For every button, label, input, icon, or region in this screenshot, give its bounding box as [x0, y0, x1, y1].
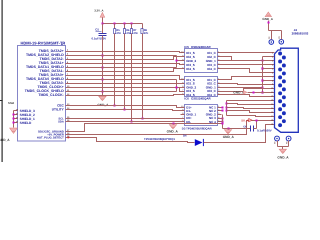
svg-text:6: 6 — [182, 67, 183, 70]
ground GND_A bottom left — [10, 128, 18, 133]
svg-text:2086581003: 2086581003 — [292, 32, 309, 36]
wire ctrl signal to D3 — [71, 118, 181, 120]
resistor R5 — [114, 24, 116, 29]
wire +5V_POWER to connector p18 — [71, 121, 275, 135]
svg-text:D3 TPD4E05U06DQAR: D3 TPD4E05U06DQAR — [182, 127, 212, 131]
svg-text:10: 10 — [181, 105, 183, 108]
svg-text:5V_A: 5V_A — [241, 118, 248, 122]
svg-text:10: 10 — [181, 78, 183, 81]
svg-text:UTILITY: UTILITY — [52, 108, 65, 112]
svg-text:9: 9 — [182, 55, 183, 58]
svg-text:7: 7 — [182, 116, 183, 119]
wire ctrl signal to D3 — [71, 121, 181, 123]
wire staircase branch — [227, 108, 275, 109]
svg-text:3: 3 — [218, 112, 219, 115]
wire shield row 2 — [71, 55, 177, 57]
wire gnd vertical — [222, 115, 224, 129]
wire p13 row — [227, 100, 275, 102]
wire TMDS row 10 to ESD — [71, 88, 181, 92]
connector bottom shield pins — [275, 136, 280, 141]
wire TMDS row 4 to ESD — [71, 64, 181, 65]
svg-text:C5: C5 — [95, 28, 99, 32]
ESD diode array D3 — [185, 105, 218, 126]
svg-text:TMDS_CLOCK-: TMDS_CLOCK- — [38, 93, 64, 97]
svg-text:6: 6 — [182, 119, 183, 122]
wire 3.3V stem — [102, 18, 104, 24]
wire shield row 8 — [71, 79, 177, 81]
wire shield vertical — [262, 57, 264, 93]
svg-text:HDMI-19-RVS/MSMT-TR: HDMI-19-RVS/MSMT-TR — [21, 40, 66, 45]
wire C5 ground / shield net vertical — [102, 36, 104, 97]
wire p17 branch — [227, 116, 275, 117]
svg-text:IO4_S: IO4_S — [186, 67, 195, 71]
power port GND_A top right — [265, 12, 271, 17]
resistor R7 — [131, 24, 133, 29]
ground GND_A under C5 — [99, 96, 106, 100]
wire ESD out to connector — [222, 57, 275, 61]
sheet border left edge — [2, 0, 3, 162]
svg-text:S3: S3 — [273, 142, 276, 144]
wire ESD out to connector — [222, 89, 275, 92]
ESD array IC6 block — [185, 77, 218, 97]
wire top shield rail — [269, 30, 282, 32]
HPD negative mark — [67, 137, 69, 139]
svg-text:1: 1 — [218, 105, 219, 108]
svg-text:5: 5 — [218, 67, 219, 70]
wire — [277, 141, 279, 147]
svg-text:8: 8 — [182, 112, 183, 115]
ESD array IC5 block — [185, 49, 218, 73]
svg-text:GND_A: GND_A — [277, 155, 289, 159]
wire shield row 5 — [71, 67, 177, 69]
wire shield tie verticals at ESD — [176, 56, 178, 68]
svg-text:IO4_C: IO4_C — [207, 67, 217, 71]
svg-text:5: 5 — [218, 119, 219, 122]
wire shield bus vertical — [13, 111, 15, 128]
wire TMDS row 7 to ESD — [71, 76, 181, 80]
wire DDC/CEC ground row — [71, 124, 223, 132]
wire shield pin stub — [263, 56, 275, 58]
svg-text:9: 9 — [182, 81, 183, 84]
wire ESD out to connector — [222, 64, 275, 66]
wire staircase branch — [227, 111, 275, 113]
svg-text:7: 7 — [182, 63, 183, 66]
capacitor C6 — [223, 128, 251, 130]
wire HPD row — [71, 138, 195, 143]
wire shield pin stub — [263, 92, 275, 94]
wire TMDS row 1 to ESD — [71, 52, 181, 53]
svg-text:ESD224DQAR: ESD224DQAR — [191, 96, 211, 100]
svg-text:Shld: Shld — [8, 101, 14, 105]
wire shield pin stub — [263, 80, 275, 82]
svg-text:0.1uF/100V: 0.1uF/100V — [257, 128, 272, 132]
svg-text:3.3V_A: 3.3V_A — [94, 9, 103, 13]
ground GND_A bottom right — [279, 149, 286, 153]
svg-text:GND_A: GND_A — [167, 130, 179, 134]
svg-text:3: 3 — [218, 59, 219, 62]
wire TMDS row 9 to ESD — [71, 83, 181, 85]
wire ESD out to connector — [222, 52, 275, 54]
svg-text:S1: S1 — [268, 37, 271, 39]
svg-text:3: 3 — [218, 85, 219, 88]
svg-text:1: 1 — [218, 51, 219, 54]
connector pins 1-19 — [278, 52, 282, 56]
wire — [288, 141, 290, 147]
svg-text:D4: D4 — [183, 135, 187, 138]
svg-text:7: 7 — [182, 89, 183, 92]
svg-text:8: 8 — [182, 85, 183, 88]
wire TMDS row 6 to ESD — [71, 69, 181, 72]
ground GND_A middle — [173, 123, 175, 125]
svg-text:10: 10 — [181, 51, 183, 54]
wire ctrl signal to D3 — [71, 110, 181, 111]
svg-text:IC6: IC6 — [184, 96, 189, 100]
wire ESD out to connector — [222, 77, 275, 80]
svg-text:0.1uF/100V: 0.1uF/100V — [92, 36, 107, 40]
connector J4 body — [275, 48, 299, 132]
svg-text:2: 2 — [218, 55, 219, 58]
svg-text:GND_A: GND_A — [262, 17, 273, 21]
wire staircase branch — [227, 104, 275, 105]
svg-text:SHIELD: SHIELD — [20, 121, 32, 125]
wire 3.3V bus — [103, 23, 143, 25]
svg-text:HOT_PLUG_DETECT: HOT_PLUG_DETECT — [37, 137, 64, 140]
svg-text:5: 5 — [218, 92, 219, 95]
svg-text:47K: 47K — [133, 32, 138, 35]
wire ESD gnd to shield vertical — [222, 60, 263, 62]
wire HPD to connector p19 — [204, 125, 275, 143]
wire shield pin stub — [263, 68, 275, 70]
wire ESD out to connector — [222, 69, 275, 73]
svg-text:TPD1E05U06QDPYRQ1: TPD1E05U06QDPYRQ1 — [144, 137, 175, 141]
svg-text:C6: C6 — [243, 125, 247, 128]
svg-text:SDA: SDA — [58, 121, 64, 124]
wire bottom shield join — [278, 146, 289, 148]
svg-text:GND_A: GND_A — [0, 138, 10, 142]
wire staircase vertical — [226, 101, 228, 116]
wire TMDS row 3 to ESD — [71, 57, 181, 60]
svg-text:8: 8 — [182, 59, 183, 62]
svg-text:S4: S4 — [285, 142, 288, 145]
svg-text:1: 1 — [218, 78, 219, 81]
wire ctrl signal to D3 — [71, 106, 181, 108]
svg-text:2: 2 — [218, 109, 219, 112]
resistor R8 — [142, 24, 144, 29]
wire ESD out to connector — [222, 84, 275, 85]
connector top shield pins — [269, 40, 274, 45]
wire shield row 11 — [71, 91, 177, 93]
resistor R6 — [124, 24, 126, 29]
ground GND_A at C6 — [228, 128, 230, 130]
svg-text:6: 6 — [182, 92, 183, 95]
svg-text:GND_A: GND_A — [223, 135, 235, 139]
wire ESD out to connector — [222, 95, 275, 97]
svg-text:47K: 47K — [144, 32, 149, 35]
svg-text:9: 9 — [182, 109, 183, 112]
wire TMDS row 12 to ESD — [71, 95, 181, 96]
wire D3 NC stub dots — [222, 107, 224, 109]
svg-text:S2: S2 — [278, 36, 281, 38]
svg-text:2: 2 — [218, 81, 219, 84]
svg-text:47K: 47K — [116, 32, 121, 35]
